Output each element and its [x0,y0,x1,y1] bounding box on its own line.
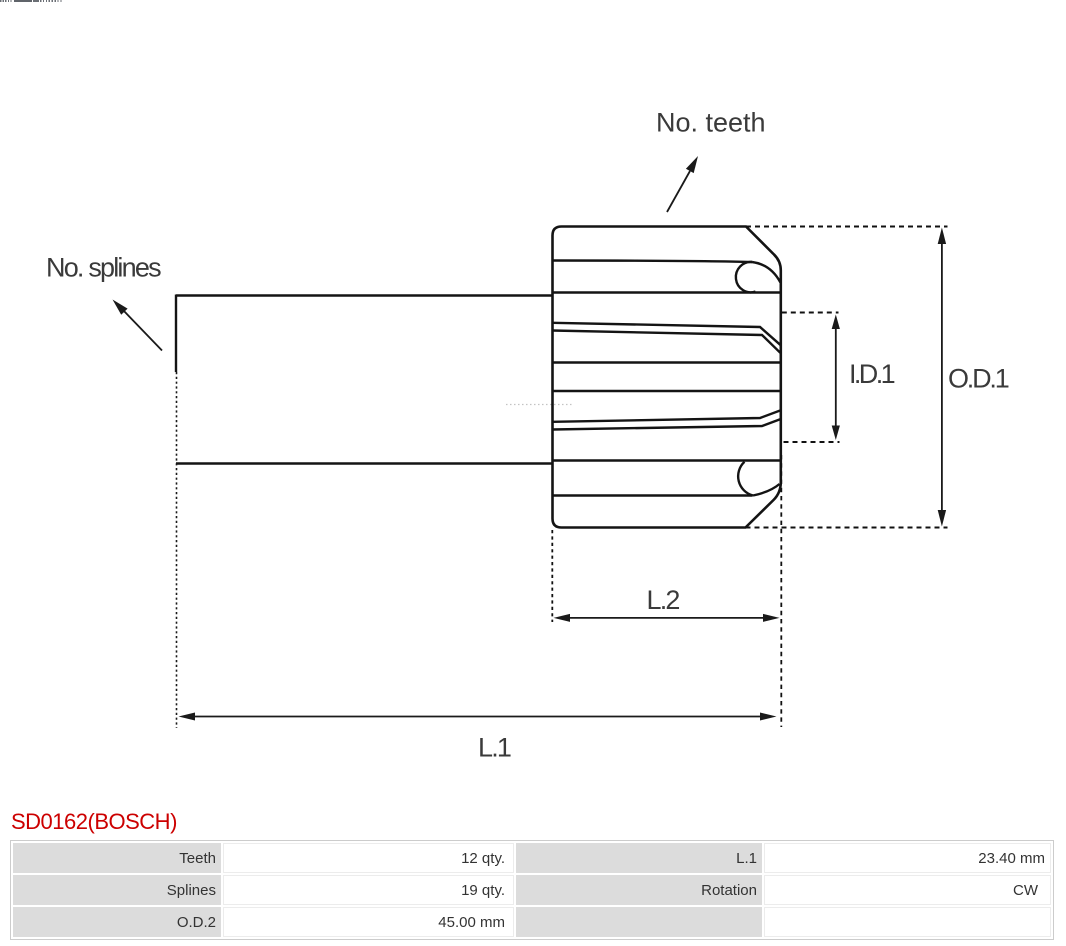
L.2 dimension line [567,617,765,619]
No. splines leader line [123,310,162,351]
No. teeth leader arrowhead [686,156,698,173]
I.D.1 bottom extension dashed [784,441,840,443]
L.1 arrow left [179,713,196,721]
svg-text:O.D.1: O.D.1 [948,364,1009,394]
L.2 arrow left [554,614,571,622]
svg-text:No. teeth: No. teeth [656,108,766,138]
tooth line y260 (partial) [553,261,753,263]
O.D.1 arrow down [938,510,946,527]
L.2 arrow right [763,614,780,622]
svg-text:L.1: L.1 [478,733,511,763]
I.D.1 top extension dashed [782,312,839,314]
L.1 arrow right [760,713,777,721]
svg-text:I.D.1: I.D.1 [849,359,895,389]
spec table [10,840,1054,940]
tooth end arc top (outer) [752,262,780,283]
spline wedge upper, top line [553,323,781,346]
O.D.1 dimension line [941,241,943,513]
I.D.1 arrow down [832,426,840,441]
tooth line y495 (partial) [553,494,753,496]
No. splines leader arrowhead [113,300,128,315]
pinion gear outline [553,227,781,528]
tooth line y391 [553,390,781,392]
clipped header artifact top-left [0,0,13,2]
No. teeth leader line [667,171,690,212]
O.D.1 top extension dashed [746,226,948,228]
tooth end arc top (inner) [736,262,756,292]
O.D.1 bottom extension dashed [746,527,948,529]
tooth end arc bottom (inner) [738,462,753,496]
svg-text:No. splines: No. splines [46,253,161,283]
spline wedge lower, top line [553,410,781,422]
faint centerline [506,404,574,406]
I.D.1 arrow up [832,315,840,330]
spline wedge lower, bottom line [553,419,781,430]
L.1 dimension line [192,716,763,718]
tooth end arc bottom (outer) [753,484,780,496]
shaft left edge lower + L.1 extension (dotted) [176,372,178,728]
shaft left edge (solid upper part) [175,295,177,373]
L.2 left extension dashed [551,530,553,622]
O.D.1 arrow up [938,228,946,245]
part number heading [11,809,177,835]
tooth line y362 [553,361,781,363]
shaft top edge [176,294,553,296]
L.2 / L.1 right extension dashed [780,455,782,727]
svg-text:L.2: L.2 [647,585,680,615]
tooth line y460 [553,459,781,461]
tooth line y292 [553,291,781,293]
shaft bottom edge [176,462,553,464]
I.D.1 dimension line [835,327,837,428]
spline wedge upper, bottom line [553,331,781,354]
